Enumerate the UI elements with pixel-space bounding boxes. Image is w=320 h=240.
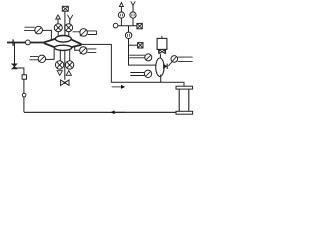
wire branch to B3 bbox=[129, 44, 138, 46]
wire fork left upper bbox=[44, 39, 56, 43]
wire E2 stub to X3 bbox=[59, 50, 61, 61]
vessel VS1 bottom flange bbox=[176, 111, 193, 114]
wire feed inlet line bbox=[7, 42, 44, 44]
vent arrow A1 bbox=[56, 15, 61, 19]
wire TK1 top tick bbox=[161, 36, 163, 39]
wire fork right upper bbox=[71, 39, 81, 44]
flow arrow FA2 bbox=[111, 110, 126, 114]
flow arrow FA1 bbox=[112, 85, 126, 89]
wire gauge header bbox=[118, 25, 137, 27]
instrument PI3 bbox=[168, 56, 192, 66]
vent arrow A2 bbox=[119, 2, 123, 6]
wire VB1 to down leg bbox=[14, 68, 24, 112]
separator EL3 bbox=[156, 58, 164, 76]
wire E2 center drain line bbox=[64, 50, 66, 80]
wire bottom return pipe bbox=[24, 111, 176, 113]
wire FI2 stem bbox=[132, 18, 134, 26]
wire FI1 stem bbox=[120, 18, 122, 26]
wire X2 to IC3 bbox=[73, 31, 80, 33]
wire B1 stem down bbox=[64, 11, 66, 36]
instrument IC1 bbox=[24, 26, 42, 34]
meter FI2 bbox=[130, 12, 136, 18]
wire X1 stem bbox=[57, 32, 59, 37]
vessel VS1 shell bbox=[179, 89, 189, 111]
solenoid valve B1 bbox=[62, 6, 68, 11]
control valve X4 bbox=[65, 61, 73, 69]
control valve X2 bbox=[65, 24, 73, 32]
wire left drain branch bbox=[14, 43, 16, 64]
relief valve VB1 bbox=[12, 64, 17, 69]
instrument IC3 bbox=[80, 29, 97, 37]
fitting under TK1 bbox=[159, 50, 166, 54]
instrument PI1 bbox=[145, 54, 152, 61]
wire X2 stem bbox=[68, 32, 70, 37]
wire fork left lower bbox=[44, 43, 55, 47]
wire Y2 stem bbox=[132, 5, 134, 11]
wire A2 stem bbox=[120, 7, 122, 12]
wire fitting to separator bbox=[159, 54, 161, 59]
wire Y1 stem bbox=[69, 20, 71, 24]
check valve BT2 bbox=[163, 64, 167, 69]
funnel Y1 bbox=[68, 15, 73, 20]
solenoid valve B3 bbox=[138, 43, 143, 48]
control valve X3 bbox=[55, 61, 63, 69]
wire fork right lower bbox=[72, 45, 82, 47]
wire E2 stub to X4 bbox=[69, 50, 71, 61]
wire IC2 to header bbox=[46, 49, 55, 60]
header ellipse E2 lower bbox=[54, 45, 71, 50]
wire main outlet run bbox=[82, 44, 184, 86]
loop seal CR1 bbox=[22, 93, 26, 97]
header ellipse E1 upper bbox=[55, 36, 71, 43]
vessel VS1 top flange bbox=[176, 86, 193, 89]
meter FI1 bbox=[118, 12, 124, 18]
fitting SQ1 bbox=[22, 75, 26, 79]
wire EL3 bottom drop bbox=[160, 75, 162, 83]
wire tails PI2 bbox=[130, 73, 144, 76]
node circle C2 bbox=[113, 23, 118, 28]
wire A1 stem bbox=[57, 19, 59, 24]
wire riser to IC4 bbox=[75, 46, 80, 50]
surge tank TK1 bbox=[157, 38, 167, 49]
node circle N1 on inlet bbox=[25, 40, 30, 45]
wire IC1 to header bbox=[42, 30, 51, 39]
control valve X1 bbox=[54, 24, 62, 32]
wire tails PI1 bbox=[129, 55, 145, 58]
funnel Y2 bbox=[131, 1, 135, 5]
drain valve BT1 bbox=[61, 80, 69, 86]
instrument IC4 bbox=[80, 47, 97, 54]
wire FI3 down run bbox=[129, 39, 157, 66]
instrument PI2 bbox=[144, 70, 151, 77]
vent triangle T2 bbox=[66, 71, 71, 76]
vent triangle T1 bbox=[57, 71, 62, 76]
solenoid valve B2 bbox=[137, 23, 142, 28]
instrument IC2 bbox=[30, 55, 46, 62]
blind tick S1 bbox=[12, 39, 14, 46]
meter FI3 bbox=[125, 32, 131, 38]
wire stub to FI3 bbox=[128, 26, 130, 32]
